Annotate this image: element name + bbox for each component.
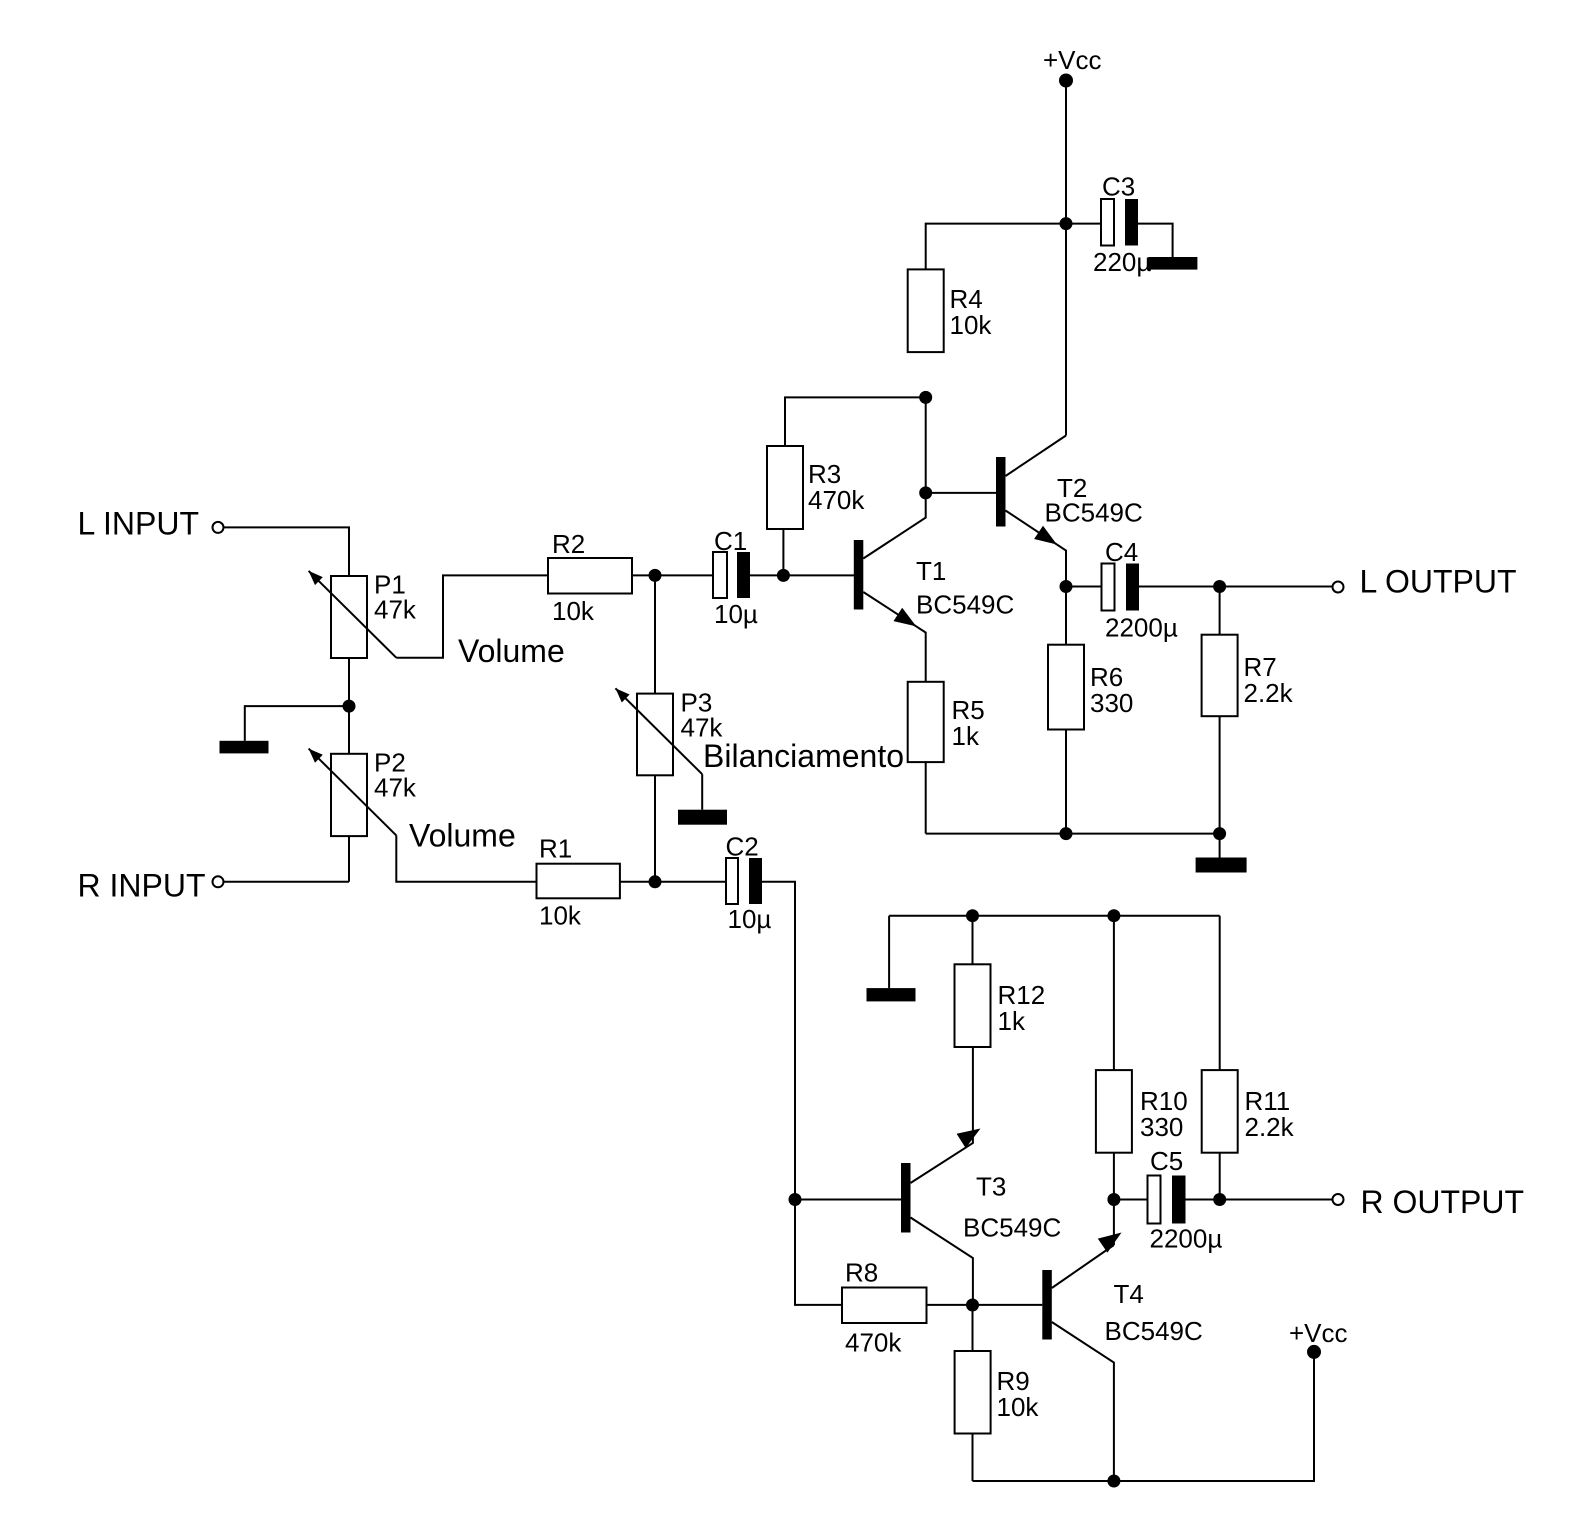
node L INPUT terminal: [213, 522, 224, 533]
svg-text:1k: 1k: [998, 1006, 1026, 1036]
node C4/R7 junction: [1213, 580, 1226, 593]
T3 emitter: [911, 1047, 973, 1183]
transistor T3: [901, 1163, 911, 1233]
svg-text:T3: T3: [976, 1171, 1006, 1201]
wire T1 collector node to T2 base: [926, 492, 996, 494]
resistor R6: [1048, 645, 1084, 730]
resistor R9: [955, 1351, 991, 1434]
node R8/R9/T4 junction: [966, 1299, 979, 1312]
node junction P1/P2: [343, 700, 356, 713]
svg-text:R2: R2: [552, 529, 585, 559]
svg-text:Bilanciamento: Bilanciamento: [703, 738, 904, 774]
node R1/C2/P3 junction: [649, 875, 662, 888]
T1 collector: [863, 493, 925, 559]
wire P3 bottom to R1 node: [654, 775, 656, 882]
potentiometer P2: [331, 754, 367, 836]
svg-text:220µ: 220µ: [1093, 247, 1151, 277]
wire C3 to ground: [1138, 224, 1173, 257]
svg-text:470k: 470k: [845, 1328, 902, 1358]
node R2/C1/P3 junction: [649, 569, 662, 582]
wire junction to C3: [1066, 223, 1101, 225]
wire R11 column: [1219, 916, 1221, 1200]
svg-text:C5: C5: [1150, 1146, 1183, 1176]
resistor R4: [908, 269, 944, 352]
wire L INPUT to P1 top: [224, 527, 349, 576]
wire R8 to T4 base: [927, 1304, 1043, 1306]
resistor R7: [1202, 635, 1238, 717]
wire P2 bottom / R INPUT: [224, 836, 349, 882]
svg-text:BC549C: BC549C: [1045, 498, 1143, 528]
wire to C5: [1114, 1199, 1147, 1201]
ground (C3): [1148, 257, 1197, 270]
svg-text:BC549C: BC549C: [1105, 1316, 1203, 1346]
ground (right channel rail): [867, 988, 916, 1001]
resistor R2: [548, 558, 632, 594]
capacitor C5: [1148, 1176, 1161, 1224]
svg-text:Volume: Volume: [409, 818, 516, 854]
resistor R10: [1096, 1070, 1132, 1153]
svg-text:330: 330: [1090, 688, 1133, 718]
svg-text:10k: 10k: [539, 901, 582, 931]
wire R6 column: [1065, 587, 1067, 834]
svg-text:BC549C: BC549C: [916, 590, 1014, 620]
wire P3 wiper to ground: [701, 774, 703, 810]
resistor R12: [955, 964, 991, 1047]
wire junction to ground: [245, 706, 349, 741]
power +Vcc (top): [1059, 74, 1073, 88]
T2 emitter: [1006, 511, 1067, 587]
svg-text:470k: 470k: [808, 485, 865, 515]
node R12 top: [966, 909, 979, 922]
ground (left channel rail): [1196, 858, 1247, 873]
svg-text:+Vcc: +Vcc: [1289, 1318, 1348, 1348]
wire P1 wiper to R2: [396, 575, 548, 657]
resistor R3: [767, 446, 803, 529]
svg-text:C4: C4: [1105, 537, 1138, 567]
resistor R5: [908, 682, 944, 762]
potentiometer P1: [331, 576, 367, 658]
wire C4 to L OUTPUT: [1139, 586, 1333, 588]
wire P1 bottom to P2 top: [348, 658, 350, 754]
node T4 collector bottom: [1107, 1475, 1120, 1488]
wire R1 to C2: [620, 881, 726, 883]
wire R2 to C1: [632, 574, 713, 576]
T3 collector: [911, 1218, 973, 1306]
svg-text:1k: 1k: [952, 721, 980, 751]
wire right-channel ground rail: [889, 915, 1220, 917]
ground (input pots): [220, 741, 269, 754]
capacitor C3: [1101, 199, 1114, 246]
node R7 bottom / ground: [1213, 827, 1226, 840]
node R10 bottom / C5 junction: [1107, 1193, 1120, 1206]
svg-text:10µ: 10µ: [728, 904, 772, 934]
svg-text:C3: C3: [1102, 172, 1135, 202]
wire T3 base: [795, 1199, 901, 1201]
T1 emitter: [863, 592, 925, 682]
svg-text:2200µ: 2200µ: [1105, 613, 1178, 643]
T4 collector: [1052, 1322, 1114, 1481]
node C5/R11 junction: [1213, 1193, 1226, 1206]
svg-text:10µ: 10µ: [714, 599, 758, 629]
svg-text:L OUTPUT: L OUTPUT: [1360, 564, 1517, 600]
wire R3 top to R4 node: [785, 397, 926, 446]
capacitor C1: [713, 552, 727, 598]
svg-text:R OUTPUT: R OUTPUT: [1361, 1184, 1525, 1220]
svg-text:BC549C: BC549C: [963, 1213, 1061, 1243]
svg-text:47k: 47k: [374, 772, 417, 802]
node L OUTPUT terminal: [1333, 582, 1344, 593]
svg-text:2200µ: 2200µ: [1150, 1224, 1223, 1254]
node R INPUT terminal: [213, 876, 224, 887]
svg-text:+Vcc: +Vcc: [1043, 45, 1102, 75]
wire R10 column: [1113, 916, 1115, 1245]
svg-text:T4: T4: [1114, 1279, 1144, 1309]
wire R4 node to T1 collector node: [925, 397, 927, 493]
capacitor C4: [1102, 564, 1115, 611]
node C1/R3 junction: [777, 569, 790, 582]
svg-text:10k: 10k: [950, 310, 993, 340]
transistor T1: [854, 540, 864, 610]
wire left-channel bottom rail: [926, 833, 1220, 835]
svg-text:10k: 10k: [997, 1392, 1040, 1422]
wire +Vcc vertical: [1065, 81, 1067, 436]
wire R9 column: [972, 1305, 974, 1481]
wire junction to R3 bottom: [782, 529, 784, 575]
wire C5 to R OUTPUT: [1185, 1199, 1333, 1201]
svg-text:2.2k: 2.2k: [1245, 1112, 1295, 1142]
svg-text:10k: 10k: [552, 596, 595, 626]
node R OUTPUT terminal: [1333, 1194, 1344, 1205]
node T2 emitter / C4 junction: [1060, 580, 1073, 593]
potentiometer P3: [637, 694, 673, 776]
capacitor C2: [726, 858, 738, 904]
svg-text:2.2k: 2.2k: [1244, 678, 1294, 708]
svg-text:47k: 47k: [374, 595, 417, 625]
svg-text:T1: T1: [916, 556, 946, 586]
svg-text:C1: C1: [714, 526, 747, 556]
wire R4 top to Vcc rail: [926, 224, 1066, 270]
svg-text:330: 330: [1140, 1112, 1183, 1142]
T4 emitter: [1052, 1245, 1114, 1288]
wire bottom Vcc rail: [973, 1352, 1315, 1481]
svg-text:R1: R1: [539, 834, 572, 864]
svg-text:R8: R8: [845, 1258, 878, 1288]
wire to C4: [1066, 586, 1102, 588]
wire R12 top to ground rail: [972, 916, 974, 965]
ground (P3): [678, 810, 727, 825]
transistor T2: [996, 457, 1006, 527]
svg-text:Volume: Volume: [458, 633, 565, 669]
wire R5 bottom to rail: [925, 762, 927, 834]
node R4 bottom junction: [919, 391, 932, 404]
wire R7 column: [1219, 587, 1221, 834]
wire P2 wiper to R1: [396, 835, 536, 881]
wire rail to ground: [888, 916, 890, 988]
resistor R8: [842, 1288, 927, 1324]
wire C2 to T3 base column: [762, 882, 842, 1305]
power +Vcc (bottom): [1307, 1345, 1321, 1359]
wire C1 to T1 base: [750, 574, 854, 576]
wire rail to ground: [1219, 834, 1221, 858]
transistor T4: [1042, 1270, 1052, 1340]
svg-text:L INPUT: L INPUT: [78, 506, 200, 542]
svg-text:C2: C2: [726, 832, 759, 862]
node Vcc/C3 junction: [1060, 217, 1073, 230]
resistor R1: [537, 864, 620, 899]
wire junction to P3 top: [654, 575, 656, 693]
node R10 top: [1107, 909, 1120, 922]
T2 collector: [1006, 436, 1067, 477]
node R6 bottom: [1060, 827, 1073, 840]
node T3 base junction: [789, 1193, 802, 1206]
svg-text:R INPUT: R INPUT: [78, 868, 206, 904]
resistor R11: [1202, 1070, 1238, 1153]
node T1 collector junction: [919, 486, 932, 499]
